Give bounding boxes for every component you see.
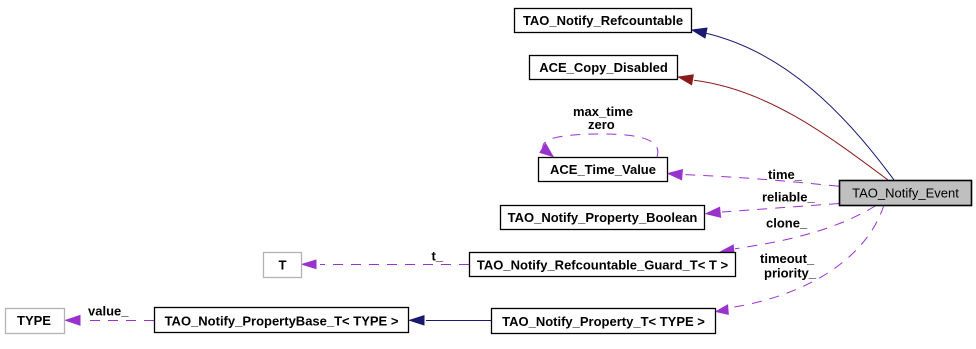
svg-text:TAO_Notify_Property_T< TYPE >: TAO_Notify_Property_T< TYPE > <box>502 314 705 329</box>
edge usage clone_ TAO_Notify_Event to TAO_Notify_Refcountable_Guard_T (purple dashed) <box>721 206 877 254</box>
node TAO_Notify_Refcountable <box>515 9 692 33</box>
node TAO_Notify_Event (main, gray) <box>840 181 972 206</box>
svg-text:value_: value_ <box>88 303 129 318</box>
svg-text:t_: t_ <box>432 249 444 264</box>
svg-text:ACE_Copy_Disabled: ACE_Copy_Disabled <box>539 60 668 75</box>
node T (template param, gray border) <box>264 253 302 278</box>
edge usage timeout_ priority_ TAO_Notify_Event to TAO_Notify_Property_T (purple dashed) <box>716 205 884 314</box>
svg-text:T: T <box>279 258 287 273</box>
edge usage time_ TAO_Notify_Event to ACE_Time_Value (purple dashed) <box>668 170 839 187</box>
node ACE_Time_Value <box>539 158 668 182</box>
node ACE_Copy_Disabled <box>530 56 678 80</box>
svg-text:TYPE: TYPE <box>17 313 51 328</box>
node TAO_Notify_Refcountable_Guard_T <box>470 253 736 277</box>
svg-text:reliable_: reliable_ <box>762 190 816 205</box>
svg-text:time_: time_ <box>768 167 803 182</box>
edge usage reliable_ TAO_Notify_Event to TAO_Notify_Property_Boolean (purple dashed) <box>706 204 839 218</box>
edge self-loop max_time zero on ACE_Time_Value (purple dashed) <box>540 134 658 157</box>
svg-text:zero: zero <box>588 117 615 132</box>
edge private-inheritance TAO_Notify_Event to ACE_Copy_Disabled (dark red solid) <box>679 75 889 180</box>
svg-text:clone_: clone_ <box>766 216 808 231</box>
svg-text:TAO_Notify_Refcountable: TAO_Notify_Refcountable <box>523 13 683 28</box>
node TAO_Notify_Property_T <box>492 309 716 334</box>
node TYPE (template param, gray border) <box>6 309 65 334</box>
svg-text:ACE_Time_Value: ACE_Time_Value <box>550 162 656 177</box>
svg-text:TAO_Notify_Property_Boolean: TAO_Notify_Property_Boolean <box>508 210 698 225</box>
svg-text:TAO_Notify_Event: TAO_Notify_Event <box>852 186 959 201</box>
node TAO_Notify_Property_Boolean <box>501 206 705 230</box>
edge public-inheritance TAO_Notify_Property_T to TAO_Notify_PropertyBase_T (blue solid) <box>410 316 492 325</box>
edge public-inheritance TAO_Notify_Event to TAO_Notify_Refcountable (blue solid) <box>692 28 894 180</box>
svg-text:timeout_: timeout_ <box>760 251 815 266</box>
svg-text:TAO_Notify_Refcountable_Guard_: TAO_Notify_Refcountable_Guard_T< T > <box>477 258 729 273</box>
node TAO_Notify_PropertyBase_T <box>155 308 409 333</box>
svg-text:priority_: priority_ <box>764 266 817 281</box>
edge usage t_ TAO_Notify_Refcountable_Guard_T to T (purple dashed) <box>302 260 469 269</box>
edge usage value_ TAO_Notify_PropertyBase_T to TYPE (purple dashed) <box>66 316 155 326</box>
svg-text:TAO_Notify_PropertyBase_T< TYP: TAO_Notify_PropertyBase_T< TYPE > <box>165 314 399 329</box>
